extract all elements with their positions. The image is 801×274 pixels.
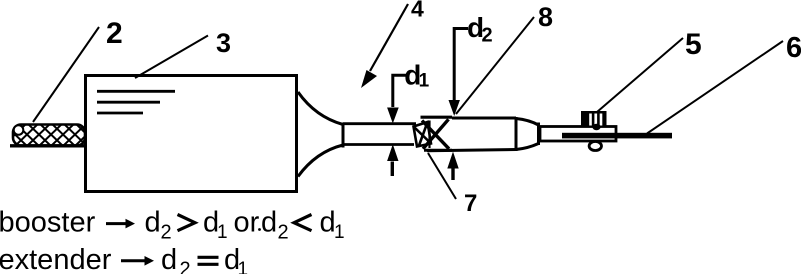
svg-text:1: 1 [419,71,430,92]
leader line 6 [647,41,783,134]
svg-text:2: 2 [161,222,172,244]
leader line 2 [33,27,99,122]
svg-text:booster: booster [0,207,96,239]
caption arrow 1 [106,222,127,225]
leader line 8 [456,17,534,114]
transducer body 3 [86,76,297,192]
svg-text:d: d [145,207,161,239]
tool cylinder [427,117,516,151]
svg-text:3: 3 [216,28,231,58]
svg-text:2: 2 [482,25,493,47]
svg-text:d: d [261,207,277,239]
svg-text:1: 1 [217,222,228,243]
svg-text:1: 1 [238,259,249,274]
caption arrow 2 [121,259,146,262]
caption line 2: extender [0,244,248,274]
clamp screw 5 [581,111,607,130]
svg-text:extender: extender [0,244,112,274]
stray dot after or [258,228,261,231]
arrow 4 [370,4,408,71]
horn bell 4 [298,92,343,177]
holder block [540,127,616,142]
greater-than sign [178,215,196,231]
svg-text:8: 8 [538,2,553,32]
dimension d1 [388,75,407,176]
winding lines inside body [97,91,175,113]
coupler cross element 7 [414,117,453,150]
svg-text:2: 2 [278,222,289,244]
svg-text:2: 2 [180,259,191,274]
svg-text:7: 7 [464,190,477,217]
pivot ellipse on holder [589,142,601,151]
svg-text:or: or [234,207,260,239]
needle 6 [562,133,672,139]
less-than sign [294,215,312,231]
svg-text:5: 5 [685,28,702,61]
svg-text:2: 2 [106,17,123,50]
nose taper [516,119,539,150]
leader line 5 [597,38,683,112]
leader line 7 [428,153,456,199]
dimension d2 [448,29,468,181]
svg-text:6: 6 [786,32,801,64]
leader line 3 [135,36,208,79]
svg-text:d: d [161,244,177,274]
caption line 1: booster [0,207,345,244]
hatched stud 2 [2,122,100,147]
rod section (d1) [343,124,416,145]
svg-text:4: 4 [411,0,424,22]
equals sign [198,257,219,264]
svg-text:1: 1 [334,222,345,243]
